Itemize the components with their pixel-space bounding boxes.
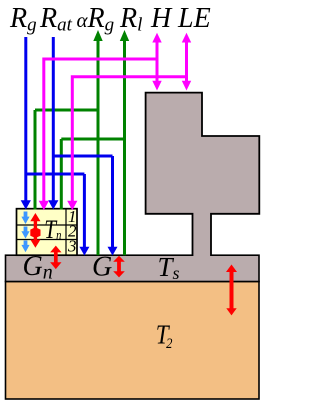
svg-text:LE: LE: [177, 3, 211, 34]
svg-text:G: G: [92, 252, 112, 283]
svg-text:3: 3: [67, 237, 77, 256]
svg-text:H: H: [150, 3, 173, 34]
